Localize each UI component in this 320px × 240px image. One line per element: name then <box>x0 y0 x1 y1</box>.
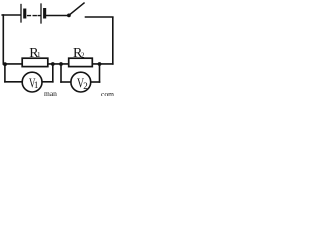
svg-text:man: man <box>44 89 57 96</box>
svg-text:1: 1 <box>34 80 39 90</box>
svg-text:1: 1 <box>37 50 41 59</box>
svg-text:2: 2 <box>83 81 88 91</box>
svg-text:com: com <box>101 90 114 97</box>
svg-text:2: 2 <box>81 52 85 60</box>
